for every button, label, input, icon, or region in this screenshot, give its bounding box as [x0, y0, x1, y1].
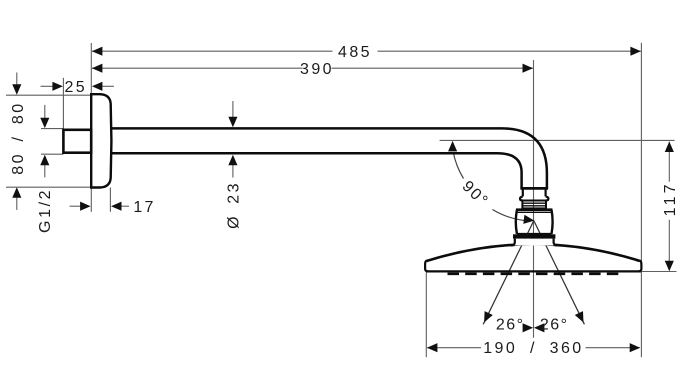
- svg-text:G1/2: G1/2: [37, 188, 54, 233]
- svg-text:17: 17: [133, 199, 155, 216]
- svg-text:26°: 26°: [496, 317, 525, 334]
- svg-text:26°: 26°: [540, 317, 569, 334]
- svg-text:80 / 80: 80 / 80: [10, 101, 27, 174]
- svg-text:390: 390: [300, 61, 334, 78]
- svg-text:90°: 90°: [459, 178, 492, 211]
- svg-text:485: 485: [338, 44, 372, 61]
- svg-text:Ø 23: Ø 23: [225, 181, 242, 229]
- svg-text:117: 117: [662, 181, 679, 216]
- svg-text:25: 25: [64, 79, 87, 96]
- svg-text:190 / 360: 190 / 360: [483, 340, 583, 357]
